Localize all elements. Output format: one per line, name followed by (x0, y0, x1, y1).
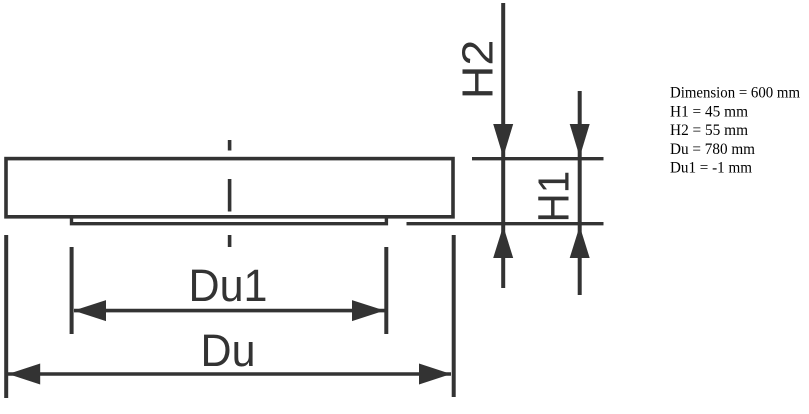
svg-text:Du1: Du1 (189, 260, 268, 311)
centerline dash middle (228, 179, 232, 212)
part cross-section rectangle (6, 159, 453, 217)
bottom extension line (407, 222, 604, 225)
svg-text:Du = 780 mm: Du = 780 mm (670, 141, 756, 158)
svg-text:H2 = 55 mm: H2 = 55 mm (670, 122, 749, 139)
svg-text:H2: H2 (453, 40, 502, 100)
H1 arrow down (570, 124, 590, 157)
svg-text:Dimension = 600 mm: Dimension = 600 mm (670, 85, 801, 102)
Du extension line left (4, 235, 8, 398)
dimension line Du (8, 372, 451, 376)
H2 arrow down (493, 124, 513, 157)
dimension line H1 (578, 91, 582, 295)
Du arrow right (419, 364, 451, 385)
dimension line H2 (501, 3, 505, 288)
Du1 arrow right (352, 300, 385, 321)
svg-text:H1 = 45 mm: H1 = 45 mm (670, 103, 749, 120)
H2 arrow up (493, 226, 513, 258)
centerline dash top (228, 140, 232, 151)
H1 arrow up (570, 226, 590, 258)
centerline dash bottom (228, 235, 232, 247)
Du1 arrow left (74, 300, 106, 321)
Du arrow left (8, 364, 40, 385)
svg-text:Du: Du (201, 325, 256, 376)
dimension line Du1 (74, 309, 385, 313)
svg-text:Du1 = -1 mm: Du1 = -1 mm (670, 160, 753, 177)
Du1 extension line right (384, 247, 388, 334)
svg-text:H1: H1 (529, 171, 578, 223)
Du extension line right (452, 235, 456, 397)
lip step under part (72, 217, 387, 224)
top extension line (472, 157, 604, 160)
Du1 extension line left (70, 247, 74, 334)
